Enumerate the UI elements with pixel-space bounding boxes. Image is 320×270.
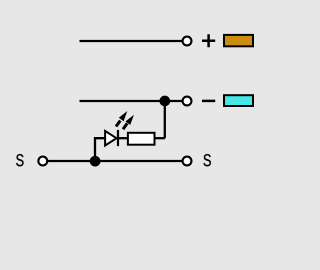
LED D1 triangle [105,131,116,146]
LED D1 cathode bar [117,130,119,146]
wire - rail [80,100,183,102]
brown marker box [224,35,253,46]
wire resistor right lead [155,137,165,139]
cyan marker box [224,95,253,106]
wire branch from - rail down to resistor [164,101,166,138]
junction dot on S wire [90,156,101,167]
terminal circle S right [183,157,192,166]
label S left [16,154,23,166]
terminal circle + rail [183,37,192,46]
minus sign [202,100,215,103]
terminal circle - rail [183,97,192,106]
junction dot on - rail [159,96,170,107]
terminal circle S left [38,157,47,166]
wire led left lead and down to S wire [95,138,106,161]
LED light arrow 1 [116,111,127,127]
LED light arrow 2 [123,115,134,130]
S wire [48,160,182,162]
resistor R1 [128,133,155,145]
label S right [204,154,211,166]
wire led to resistor [118,137,128,139]
wire + rail [80,40,183,42]
plus sign [202,34,215,47]
